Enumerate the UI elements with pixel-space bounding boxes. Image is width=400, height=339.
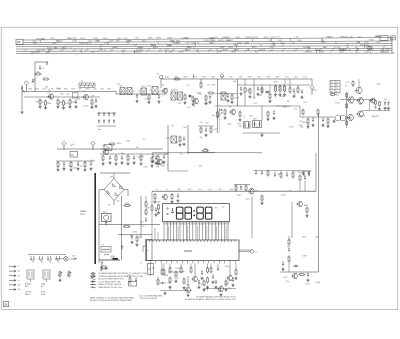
IC bottom pin stubs: [151, 261, 236, 264]
svg-text:560: 560: [152, 268, 155, 270]
IF transformer S4: [141, 88, 147, 95]
svg-text:SET: SET: [25, 286, 28, 288]
wire left col riser: [21, 92, 23, 111]
wire riser x121: [121, 196, 123, 260]
svg-text:D21: D21: [205, 123, 208, 125]
bus wire labels 2: [33, 36, 381, 45]
svg-text:T9: T9: [331, 91, 333, 93]
wire power mid rail: [118, 234, 152, 236]
elco C62: [334, 115, 348, 121]
svg-text:T568: T568: [254, 191, 258, 193]
svg-text:R48: R48: [130, 236, 133, 238]
resistor R22: [278, 85, 281, 97]
svg-text:R33: R33: [185, 37, 188, 39]
resistor R62: [180, 263, 182, 273]
IC top pin stubs: [150, 240, 236, 242]
capacitor C20: [292, 88, 295, 97]
svg-text:10k: 10k: [251, 189, 254, 191]
svg-text:n47: n47: [108, 204, 111, 206]
svg-text:55: 55: [320, 49, 322, 51]
svg-text:22p: 22p: [348, 118, 351, 120]
capacitor C44: [121, 245, 123, 250]
svg-text:L565: L565: [237, 124, 241, 126]
capacitor C31: [108, 155, 111, 164]
svg-text:59: 59: [369, 49, 371, 51]
svg-text:R32: R32: [229, 77, 232, 79]
capacitor C17: [226, 93, 229, 102]
capacitor C40: [304, 175, 306, 191]
diode D8: [293, 265, 299, 267]
wire det rail: [215, 93, 238, 95]
resistor R76: [202, 280, 205, 292]
svg-text:D460: D460: [210, 37, 214, 39]
svg-text:2n2: 2n2: [142, 226, 145, 228]
wire drop d1: [169, 287, 171, 291]
fuse F1: [101, 245, 111, 253]
ground T19: [219, 293, 222, 296]
svg-text:R255: R255: [33, 41, 37, 43]
resistor R1: [35, 72, 42, 76]
ground amp: [332, 120, 335, 123]
wire riser x245: [244, 94, 246, 106]
svg-text:6k8: 6k8: [91, 96, 94, 98]
svg-text:C286: C286: [376, 36, 380, 38]
note under-IC: [140, 295, 163, 301]
resistor R39: [109, 143, 116, 145]
transistor T11: [102, 146, 108, 156]
svg-text:C132: C132: [88, 41, 92, 43]
svg-text:10k: 10k: [77, 98, 80, 100]
capacitor C28: [62, 161, 65, 170]
node TP2: [310, 79, 314, 95]
wire bus line 7: [16, 52, 392, 54]
capacitor C46: [200, 270, 203, 279]
capacitor C22: [218, 109, 223, 111]
seven-segment digits 88:88: [176, 207, 212, 219]
svg-text:1k: 1k: [243, 116, 245, 118]
resistor R33: [306, 118, 309, 129]
svg-text:2n2: 2n2: [143, 139, 146, 141]
mains label: [80, 210, 87, 216]
resistor R25: [297, 87, 299, 94]
capacitor C50: [281, 261, 284, 270]
svg-text:n47: n47: [163, 94, 166, 96]
capacitor C2: [46, 61, 48, 66]
svg-text:C595: C595: [72, 168, 76, 170]
ground power: [104, 267, 107, 270]
resistor R59: [161, 263, 163, 275]
wire supply rail top: [161, 78, 312, 80]
svg-text:S284: S284: [316, 282, 320, 284]
svg-text:1n: 1n: [40, 100, 42, 102]
svg-text:S348: S348: [191, 43, 195, 45]
capacitor C54: [135, 277, 137, 282]
svg-text:L479: L479: [280, 42, 284, 44]
node TP1: [24, 81, 28, 92]
svg-text:1n: 1n: [167, 189, 169, 191]
capacitor C23: [272, 110, 275, 119]
svg-text:R235: R235: [176, 40, 180, 42]
display small text: [215, 208, 219, 210]
resistor R3: [39, 99, 44, 106]
detector diode D2: [265, 91, 270, 93]
capacitor C25: [383, 101, 386, 110]
resistor R41: [114, 155, 117, 166]
svg-text:R413: R413: [33, 43, 37, 45]
svg-text:p: p: [107, 268, 108, 270]
svg-text:6k8: 6k8: [233, 81, 236, 83]
ground R3: [38, 105, 41, 108]
capacitor C51: [306, 272, 309, 281]
resistor R37: [69, 161, 72, 171]
legend table: [91, 272, 148, 289]
svg-text:T7: T7: [331, 85, 333, 87]
display pin comb shade: [164, 222, 230, 225]
svg-text:2n2: 2n2: [359, 104, 362, 106]
wire bridge right: [124, 190, 128, 197]
svg-text:L195: L195: [295, 37, 299, 39]
capacitor C16: [208, 95, 211, 104]
svg-text:osc: osc: [130, 284, 133, 286]
svg-text:T416: T416: [298, 172, 302, 174]
svg-text:RADIO: RADIO: [25, 293, 31, 296]
wire riser x141: [140, 196, 142, 238]
svg-text:100n: 100n: [381, 52, 385, 54]
resistor R11: [191, 96, 194, 106]
transistor T23: [369, 98, 375, 104]
ground R6: [62, 106, 65, 109]
resistor R18: [248, 88, 251, 99]
svg-text:R267: R267: [107, 89, 111, 91]
wire audio link: [276, 106, 300, 117]
svg-text:T134: T134: [238, 126, 242, 128]
wire riser x285: [284, 79, 286, 84]
wire riser x298: [297, 85, 299, 88]
wire clock rail: [152, 190, 316, 192]
indicator lamp LP1: [64, 257, 74, 261]
svg-text:4k7: 4k7: [65, 103, 68, 105]
resistor R5: [57, 99, 62, 106]
svg-text:C689: C689: [145, 208, 149, 210]
standby box: [146, 240, 153, 261]
svg-text:S442: S442: [85, 43, 89, 45]
resistor R51: [299, 175, 301, 192]
wire bottom right rail: [280, 271, 319, 273]
capacitors right pair: [302, 172, 311, 177]
sleep pot: [67, 271, 71, 278]
svg-text:120k: 120k: [303, 102, 307, 104]
svg-text:34: 34: [62, 50, 64, 52]
resistor R64: [234, 263, 237, 279]
switch S1: [21, 85, 24, 110]
svg-text:S28: S28: [78, 89, 81, 91]
svg-text:4k7: 4k7: [222, 95, 225, 97]
svg-text:osc: osc: [98, 129, 101, 131]
wire left under display: [151, 191, 153, 206]
svg-text:LD1: LD1: [157, 201, 160, 203]
svg-text:43: 43: [173, 49, 175, 51]
wire drop d2: [207, 287, 209, 291]
svg-text:S107: S107: [174, 89, 178, 91]
svg-text:T434: T434: [326, 37, 330, 39]
svg-text:C66: C66: [306, 124, 309, 126]
wire link x168-x188: [168, 170, 188, 172]
svg-text:D136: D136: [364, 42, 368, 44]
svg-text:C352: C352: [283, 107, 287, 109]
svg-text:3k3: 3k3: [200, 137, 203, 139]
svg-text:1n: 1n: [140, 262, 142, 264]
wire under-IC drop 1: [150, 263, 152, 276]
svg-text:47u: 47u: [240, 189, 243, 191]
wire IC right link: [239, 249, 252, 251]
svg-text:8p2: 8p2: [287, 246, 290, 248]
bus terminator right: [392, 38, 395, 53]
svg-text:47u: 47u: [90, 160, 93, 162]
capacitor C39: [261, 170, 263, 175]
capacitor C30: [89, 161, 92, 170]
svg-text:33: 33: [50, 50, 52, 52]
capacitor C45: [130, 235, 133, 244]
svg-text:R553: R553: [193, 77, 197, 79]
capacitor C32: [120, 155, 123, 164]
capacitor C24: [374, 106, 376, 109]
svg-text:L220: L220: [349, 36, 353, 38]
svg-text:L684: L684: [167, 282, 171, 284]
wire amp vertical rail: [346, 92, 348, 128]
wire x262 riser: [261, 106, 263, 120]
transistor T5: [229, 107, 235, 116]
capacitor C33: [132, 155, 135, 164]
wire antenna drop: [35, 62, 47, 92]
svg-text:54: 54: [308, 49, 310, 51]
transistor T7: [355, 87, 362, 94]
svg-text:100n: 100n: [230, 189, 234, 191]
node TP3: [62, 141, 66, 150]
svg-text:S487: S487: [302, 256, 306, 258]
svg-text:6k8: 6k8: [316, 237, 319, 239]
ground R7: [68, 105, 71, 108]
wire mid lower rail: [100, 153, 168, 155]
wire rail lower: [56, 160, 95, 162]
capacitor C47: [211, 274, 214, 283]
svg-text:D16: D16: [321, 40, 324, 42]
svg-text:560: 560: [217, 291, 220, 293]
wire bl row: [55, 258, 64, 260]
bus wire labels: [30, 36, 387, 54]
label amp: [372, 115, 379, 118]
transistor T19: [217, 285, 223, 292]
snooze box: [148, 264, 154, 275]
wire riser x252: [251, 197, 253, 239]
svg-text:S6: S6: [182, 271, 184, 273]
resistor R7: [69, 99, 76, 106]
resistor R9: [147, 94, 150, 104]
svg-text:52: 52: [283, 49, 285, 51]
wire agc rail: [238, 84, 311, 86]
display leds: [167, 208, 169, 215]
svg-text:38: 38: [111, 49, 113, 51]
svg-text:D272: D272: [147, 85, 151, 87]
svg-text:120k: 120k: [177, 189, 181, 191]
transistor T8: [356, 97, 363, 104]
svg-text:T172: T172: [303, 77, 307, 79]
resistor R71b: [378, 101, 381, 111]
svg-text:46: 46: [210, 49, 212, 51]
svg-text:560: 560: [116, 200, 119, 202]
resistor R20: [268, 93, 271, 103]
clock IC label: [184, 251, 193, 253]
svg-text:log: log: [212, 115, 215, 117]
svg-text:100n: 100n: [204, 103, 208, 105]
svg-text:R436: R436: [198, 284, 202, 286]
svg-text:T685: T685: [28, 89, 32, 91]
capacitor C18: [239, 86, 242, 95]
svg-text:S255: S255: [361, 116, 365, 118]
wire riser x262b: [261, 85, 263, 94]
sheet corner box: [3, 302, 9, 307]
IF transformer S8: [221, 92, 226, 100]
wire mid rail: [215, 105, 290, 107]
resistor R73: [163, 263, 165, 275]
svg-text:1k: 1k: [145, 91, 147, 93]
svg-text:1n: 1n: [63, 166, 65, 168]
output transformer S10: [253, 119, 262, 128]
label page ref: [305, 284, 310, 286]
capacitor C14: [135, 94, 138, 103]
svg-text:C61: C61: [72, 256, 75, 258]
capacitor C58: [197, 279, 200, 288]
transistor T10: [356, 111, 363, 118]
svg-text:S11: S11: [71, 155, 74, 157]
legend flag: [101, 266, 108, 272]
svg-text:22p: 22p: [300, 127, 303, 129]
display name: [157, 201, 160, 203]
bus pin number row: [24, 49, 384, 52]
svg-text:C237: C237: [161, 163, 165, 165]
display minus segment: [171, 208, 174, 212]
capacitor C43: [101, 266, 103, 271]
svg-text:C441: C441: [245, 198, 249, 200]
node TP4: [91, 141, 95, 150]
wire mid rail2: [100, 148, 163, 150]
IF transformer S2: [120, 86, 125, 95]
resistor R66: [288, 256, 290, 273]
bus wire labels 3: [303, 47, 390, 54]
svg-text:31: 31: [25, 50, 27, 52]
transistor T16: [296, 201, 308, 207]
svg-text:22p: 22p: [286, 281, 289, 283]
wire riser x270: [269, 85, 271, 92]
resistor R34: [317, 109, 319, 116]
voltage table: [330, 80, 340, 93]
transistor T4: [192, 98, 198, 108]
svg-text:10k: 10k: [187, 107, 190, 109]
svg-text:b567: b567: [304, 205, 308, 207]
capacitor C53: [308, 171, 310, 176]
capacitor C4: [74, 99, 77, 108]
resistor R8: [90, 99, 93, 109]
svg-text:D244: D244: [52, 43, 56, 45]
capacitor C1: [39, 65, 45, 70]
bus jumper ticks: [38, 38, 371, 53]
capacitor C26: [311, 117, 314, 126]
svg-text:R404: R404: [64, 89, 68, 91]
resistor R12: [200, 79, 202, 89]
wire xfmr rail: [99, 224, 160, 226]
svg-text:220V~: 220V~: [80, 214, 87, 216]
resistor R13: [204, 95, 207, 105]
resistor R21: [274, 85, 277, 97]
svg-text:T289: T289: [227, 124, 231, 126]
svg-text:F1: F1: [102, 245, 104, 247]
capacitor C42: [101, 261, 103, 266]
resistor R79: [174, 78, 181, 80]
svg-text:D195: D195: [143, 166, 147, 168]
wire pot gang dashed: [219, 108, 221, 133]
wire riser x237: [237, 79, 239, 106]
wire into IC left: [152, 222, 158, 240]
wire riser x217: [217, 79, 219, 133]
resistor R75: [190, 263, 192, 273]
resistor R17: [244, 87, 250, 94]
svg-text:L263: L263: [294, 77, 298, 79]
svg-text:C282: C282: [161, 166, 165, 168]
resistor R30: [346, 103, 348, 108]
switch row S13-S16: [28, 255, 66, 263]
svg-text:R247: R247: [73, 38, 77, 40]
resistor R47: [153, 193, 156, 203]
display label: [222, 207, 225, 209]
capacitor C34: [154, 155, 157, 164]
capacitor C56: [154, 207, 157, 216]
svg-text:R468: R468: [164, 275, 168, 277]
svg-text:T8: T8: [331, 88, 333, 90]
wire left rail lower: [24, 96, 100, 98]
svg-text:4k7: 4k7: [287, 101, 290, 103]
svg-text:R454: R454: [40, 38, 44, 40]
svg-text:2n2: 2n2: [180, 154, 183, 156]
svg-text:S415: S415: [35, 89, 39, 91]
capacitor C61: [72, 256, 77, 260]
coil box L2: [73, 93, 79, 99]
svg-text:S174: S174: [133, 231, 137, 233]
svg-text:R68: R68: [128, 275, 131, 277]
transistor T1: [47, 90, 53, 100]
wire snooze rail: [152, 152, 262, 154]
resistor R10: [183, 94, 186, 105]
svg-text:S118: S118: [275, 77, 279, 79]
resistor R42: [126, 155, 129, 166]
resistor R65: [288, 236, 290, 246]
resistor R2: [43, 78, 50, 80]
svg-text:1k: 1k: [126, 91, 128, 93]
resistor R28: [266, 111, 269, 121]
svg-text:47u: 47u: [338, 49, 341, 51]
svg-text:T680: T680: [126, 140, 130, 142]
resistor R35: [326, 118, 329, 128]
resistor R31: [346, 120, 348, 125]
svg-text:32: 32: [37, 50, 39, 52]
svg-text:S650: S650: [274, 82, 278, 84]
svg-text:R54: R54: [126, 203, 129, 205]
trimmer T22: [58, 271, 62, 282]
svg-text:1k: 1k: [69, 165, 71, 167]
svg-text:10k: 10k: [198, 189, 201, 191]
svg-text:D170: D170: [226, 40, 230, 42]
svg-text:1n: 1n: [41, 102, 43, 104]
resistor R67: [299, 274, 306, 276]
cluster pre-display: [234, 185, 250, 192]
